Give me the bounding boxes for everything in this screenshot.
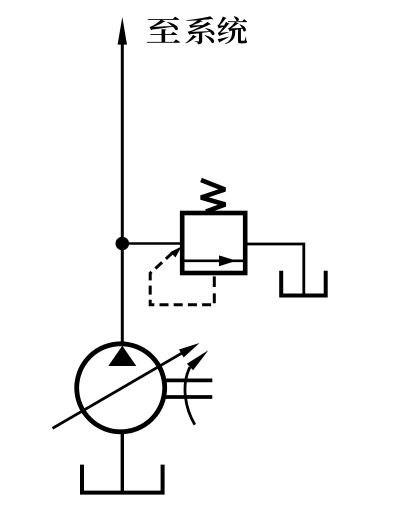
label text "至" (zhi) of 至系统 (to system) [147, 17, 180, 43]
compensator piston line lower [163, 395, 212, 399]
tank symbol (pump suction reservoir) [82, 465, 163, 493]
label text "统" (tong) of 至系统 (to system) [217, 16, 247, 44]
relief valve internal flow path line [184, 259, 243, 262]
pilot line arrowhead at valve inlet [170, 247, 181, 258]
wire: main pressure line (pump outlet to system) [121, 43, 124, 345]
relief valve spring [201, 180, 225, 212]
wire: pump suction line [121, 431, 124, 492]
compensator adjustment curved arrow shaft [185, 367, 195, 425]
relief valve body (square envelope) [182, 213, 245, 273]
pilot/drain dashed control line (arrow to corner, down, and across bottom) [150, 253, 214, 305]
compensator piston line upper [164, 378, 213, 382]
pump output flow triangle (solid, pointing up) [108, 346, 136, 366]
tank symbol (relief valve drain) [281, 271, 326, 296]
relief valve internal flow arrowhead [219, 255, 237, 266]
wire: branch to relief valve inlet [122, 242, 181, 245]
variable displacement arrow shaft (diagonal through pump) [53, 350, 189, 429]
pilot/drain dashed stub from valve box bottom [213, 276, 216, 303]
label text "系" (xi) of 至系统 (to system) [185, 16, 214, 44]
wire: relief valve outlet to tank [245, 244, 304, 294]
variable displacement arrowhead [179, 343, 200, 358]
compensator adjustment arrowhead [187, 350, 208, 370]
node: junction dot on pressure line [116, 237, 130, 251]
arrowhead to system (flow direction up) [118, 17, 127, 45]
pump P1 circle (variable displacement pump) [77, 344, 165, 432]
